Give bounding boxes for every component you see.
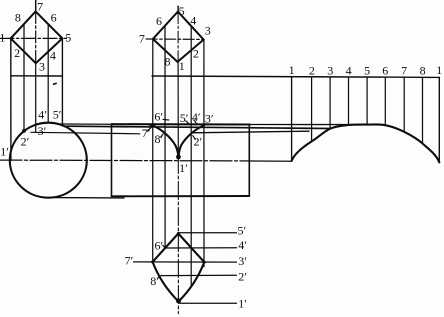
node: bottom auxiliary figure outline (kite with concave lower edges) xyxy=(153,234,179,262)
svg-text:2: 2 xyxy=(309,64,315,78)
svg-text:3′: 3′ xyxy=(205,111,214,125)
wire: top transfer line to development curve xyxy=(250,124,351,126)
svg-text:4′: 4′ xyxy=(238,238,247,252)
svg-text:5: 5 xyxy=(364,64,370,78)
wire: prism top edge and development top line xyxy=(152,76,439,77)
wire: leader tick under 6' xyxy=(163,118,169,121)
svg-text:5′: 5′ xyxy=(53,108,62,122)
wire: prism edge 6/8 projector (middle figure) xyxy=(164,26,166,249)
wire: development generator line 8 xyxy=(422,78,424,144)
node: intersection V-curve right branch 3'-2'-1' xyxy=(179,125,205,158)
svg-text:1′: 1′ xyxy=(179,161,188,175)
svg-text:8: 8 xyxy=(420,64,426,78)
node: junction dot at bottom vertex 1' xyxy=(176,298,181,303)
wire: leader tick at 2' xyxy=(193,136,196,140)
svg-text:2′: 2′ xyxy=(194,135,203,149)
wire: development generator line 5 xyxy=(366,77,368,124)
wire: development generator line 3 xyxy=(329,77,331,129)
svg-text:7′: 7′ xyxy=(142,126,151,140)
svg-text:4′: 4′ xyxy=(192,110,201,124)
node: cylinder front-view rectangle left edge xyxy=(111,124,113,196)
svg-text:1′: 1′ xyxy=(0,144,9,158)
svg-text:5′: 5′ xyxy=(238,224,247,238)
svg-text:5: 5 xyxy=(179,4,185,18)
svg-text:5′: 5′ xyxy=(180,111,189,125)
svg-text:2′: 2′ xyxy=(238,270,247,284)
wire: kite horizontal centerline, 7' and 3' leader xyxy=(134,261,237,263)
svg-text:2: 2 xyxy=(14,46,20,60)
wire: cylinder bottom silhouette line xyxy=(112,195,250,197)
wire: 8'/2' leader line xyxy=(162,274,237,276)
svg-text:7: 7 xyxy=(401,64,407,78)
wire: development generator line 1 (left) xyxy=(291,77,293,161)
svg-text:3: 3 xyxy=(205,24,211,38)
wire: prism edge 4/6 projector (left figure) xyxy=(47,24,49,123)
svg-text:8: 8 xyxy=(15,11,21,25)
svg-text:6: 6 xyxy=(382,64,388,78)
svg-text:1: 1 xyxy=(436,63,442,77)
node: small dots at kite vertices xyxy=(151,260,154,263)
svg-text:8′: 8′ xyxy=(150,274,159,288)
svg-text:6: 6 xyxy=(51,11,57,25)
wire: 5' leader line xyxy=(179,232,237,234)
wire: development generator line 6 xyxy=(384,77,386,125)
wire: prism top edge line (left figure) xyxy=(11,75,63,77)
wire: prism edge 5 projector (left figure) xyxy=(61,38,63,126)
wire: axis transfer line to development corner 1 xyxy=(240,160,292,162)
wire: speck mark xyxy=(54,82,57,85)
node: middle diamond horizontal centerline with 7 leader xyxy=(146,38,203,40)
wire: transfer line at 3'/7' level xyxy=(66,126,330,128)
wire: development generator line 1 (right) xyxy=(438,78,440,163)
svg-text:7: 7 xyxy=(37,0,43,13)
wire: development generator line 7 xyxy=(403,77,405,131)
svg-text:6: 6 xyxy=(156,14,162,28)
svg-text:3: 3 xyxy=(39,59,45,73)
svg-text:1′: 1′ xyxy=(238,296,247,310)
svg-text:2: 2 xyxy=(193,47,199,61)
svg-text:4: 4 xyxy=(190,13,196,27)
node: development of intersection curve xyxy=(292,124,440,162)
wire: development generator line 4 xyxy=(348,77,350,125)
wire: prism axis projector 3/7 (left figure) xyxy=(35,63,37,131)
node: middle top-view diamond (vertices 1,3,5,7) xyxy=(153,12,204,62)
wire: prism edge 1 projector (left figure) xyxy=(10,38,12,160)
wire: leader tick at 6' (bottom figure) xyxy=(163,245,165,248)
wire: leader tick at 8' (bottom figure) xyxy=(158,275,161,278)
wire: top transfer line from side view xyxy=(57,123,112,125)
wire: horizontal axis line of cylinders (dash-dot) xyxy=(0,159,240,162)
svg-text:8: 8 xyxy=(165,54,171,68)
wire: development generator line 2 xyxy=(311,77,313,141)
node: cylinder end circle (left figure) xyxy=(10,123,87,198)
svg-text:8′: 8′ xyxy=(155,132,164,146)
svg-text:1: 1 xyxy=(289,63,295,77)
svg-text:3′: 3′ xyxy=(38,124,47,138)
node: intersection V-curve left branch 7'-8'-1' xyxy=(152,125,178,158)
svg-text:6′: 6′ xyxy=(154,109,163,123)
svg-text:2′: 2′ xyxy=(21,135,30,149)
wire: prism edge 7 projector (middle figure) xyxy=(152,39,154,262)
wire: 6'/4' leader line xyxy=(165,247,236,249)
svg-text:6′: 6′ xyxy=(155,239,164,253)
wire: leader tick under 5' xyxy=(186,121,189,123)
wire: middle prism axis vertical centerline xyxy=(177,6,179,11)
wire: 1' leader line xyxy=(180,302,237,304)
node: junction dot 1' at V bottom xyxy=(176,155,181,160)
node: junction dot 2' on circle xyxy=(22,129,26,133)
svg-text:1: 1 xyxy=(0,30,5,44)
wire: leader tick at 8' xyxy=(161,134,164,137)
wire: leader line from 3' to 7' labels xyxy=(31,132,140,134)
svg-text:4: 4 xyxy=(50,49,56,63)
svg-text:3′: 3′ xyxy=(238,254,247,268)
wire: transfer line at 2'/8' level xyxy=(191,131,309,133)
node: left diamond vertical centerline (prism axis, top view) xyxy=(35,0,37,11)
wire: leader tick under 4' xyxy=(194,120,197,124)
wire: bottom tangent transfer line from circle xyxy=(51,197,124,199)
svg-text:4′: 4′ xyxy=(38,108,47,122)
svg-text:1: 1 xyxy=(179,59,185,73)
wire: leader arrow ticks at 7' xyxy=(147,127,152,132)
node: left top-view diamond (square prism, vertices 1,3,5,7; mid-edge points 2,4,6,8) xyxy=(11,11,63,63)
svg-text:7′: 7′ xyxy=(125,254,134,268)
svg-text:3: 3 xyxy=(327,64,333,78)
wire: prism edge 3 projector (middle figure) xyxy=(203,40,205,267)
svg-text:5: 5 xyxy=(65,30,71,44)
wire: prism edge 2/4 projector (middle figure) xyxy=(190,26,192,285)
node: left diamond horizontal centerline through 1 and 5 xyxy=(0,37,67,39)
svg-text:7: 7 xyxy=(139,32,145,46)
wire: cylinder top silhouette line (bold) xyxy=(112,123,251,125)
wire: prism edge 2/8 projector (left figure) xyxy=(23,24,25,131)
svg-text:4: 4 xyxy=(346,64,352,78)
node: cylinder front-view rectangle right edge xyxy=(248,125,250,197)
